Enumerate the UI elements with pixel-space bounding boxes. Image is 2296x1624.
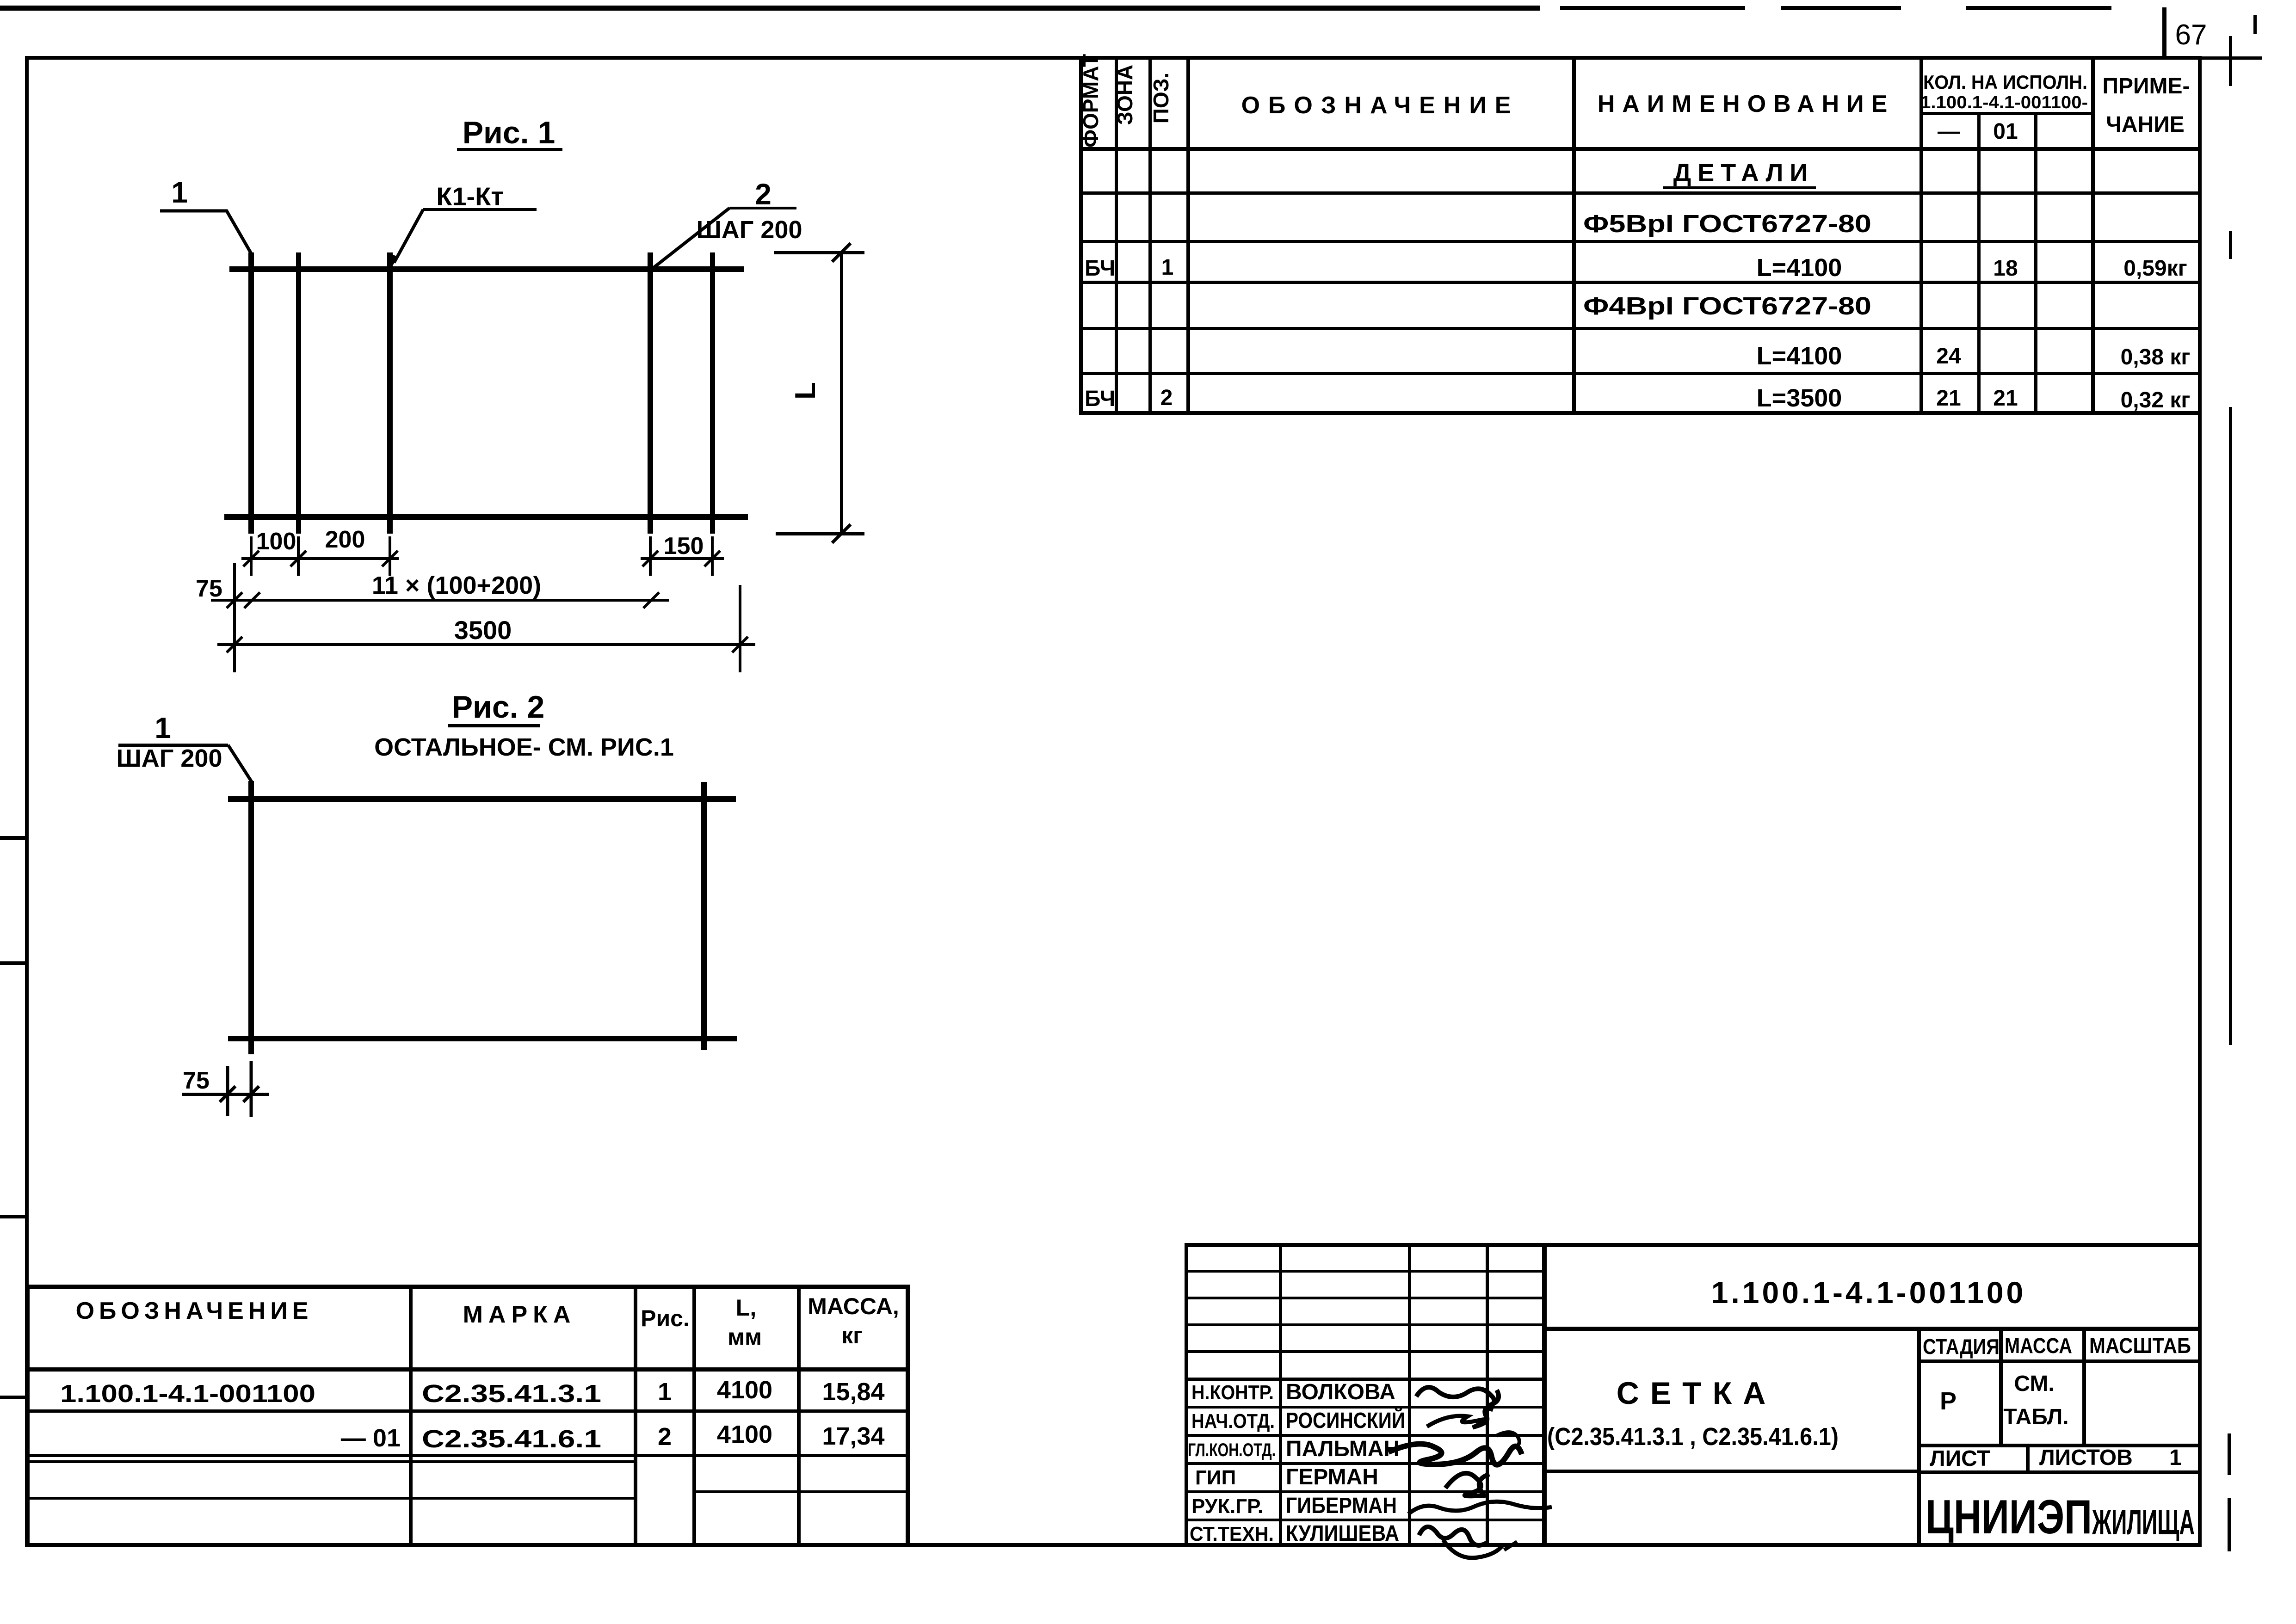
svg-text:0,59кг: 0,59кг [2123,256,2187,281]
svg-text:Ф4ВрI ГОСТ6727-80: Ф4ВрI ГОСТ6727-80 [1583,292,1871,320]
svg-text:21: 21 [1993,386,2018,411]
svg-text:РУК.ГР.: РУК.ГР. [1191,1495,1263,1518]
fig2 mesh right bar [701,782,707,1050]
svg-text:КУЛИШЕВА: КУЛИШЕВА [1286,1521,1399,1546]
scan top edge line [0,6,1540,11]
svg-text:1.100.1-4.1-001100: 1.100.1-4.1-001100 [1711,1275,2026,1310]
svg-text:1: 1 [1161,255,1174,280]
svg-text:1: 1 [2169,1446,2182,1470]
svg-text:С2.35.41.3.1: С2.35.41.3.1 [422,1380,601,1408]
svg-text:ЗОНА: ЗОНА [1113,65,1137,125]
svg-text:01: 01 [1993,119,2018,144]
svg-text:ШАГ 200: ШАГ 200 [117,744,222,772]
signature squiggle Пальман [1389,1444,1522,1465]
svg-text:МАРКА: МАРКА [463,1301,576,1328]
svg-text:ОБОЗНАЧЕНИЕ: ОБОЗНАЧЕНИЕ [76,1298,313,1324]
svg-text:НАЧ.ОТД.: НАЧ.ОТД. [1191,1410,1275,1433]
svg-text:2: 2 [755,178,772,211]
svg-text:17,34: 17,34 [822,1422,884,1450]
svg-text:4100: 4100 [717,1376,772,1404]
left margin tick 1 [0,836,25,840]
svg-text:Н.КОНТР.: Н.КОНТР. [1191,1381,1274,1404]
signature squiggle Волкова [1416,1387,1499,1406]
svg-text:1: 1 [658,1378,672,1406]
svg-text:КОЛ. НА ИСПОЛН.: КОЛ. НА ИСПОЛН. [1923,71,2087,93]
svg-text:1.100.1-4.1-001100: 1.100.1-4.1-001100 [60,1380,315,1408]
svg-text:(С2.35.41.3.1 , С2.35.41.6.1): (С2.35.41.3.1 , С2.35.41.6.1) [1547,1423,1839,1451]
fig1 dim row B line + ticks [211,599,669,602]
signature squiggle Гиберман [1408,1501,1552,1514]
svg-text:1: 1 [171,176,188,209]
svg-text:СМ.: СМ. [2014,1372,2054,1396]
svg-text:Рис. 1: Рис. 1 [463,115,555,150]
svg-text:К1-Кт: К1-Кт [436,182,504,211]
bl table horizontals [26,1285,910,1500]
svg-text:ЧАНИЕ: ЧАНИЕ [2106,112,2185,137]
svg-text:ВОЛКОВА: ВОЛКОВА [1286,1380,1395,1404]
svg-text:мм: мм [728,1324,762,1350]
svg-text:ЛИСТ: ЛИСТ [1930,1446,1990,1471]
fig1 dim row B extension [233,563,236,672]
svg-text:БЧ: БЧ [1085,387,1115,411]
svg-text:ТАБЛ.: ТАБЛ. [2003,1405,2068,1429]
svg-text:Рис.: Рис. [641,1305,690,1331]
signature squiggle Кулишева [1419,1527,1487,1545]
svg-text:15,84: 15,84 [822,1378,884,1406]
fig2 dim 75 line + ticks [182,1093,269,1096]
fig1 mesh vertical bar 3 [387,252,393,534]
signature squiggle Росинский [1427,1409,1493,1427]
svg-text:ДЕТАЛИ: ДЕТАЛИ [1673,159,1814,187]
spec table horizontals [1079,112,2202,415]
svg-text:МАССА: МАССА [2005,1334,2072,1358]
fig1 mesh bottom bar [224,514,748,520]
svg-text:2: 2 [1160,386,1173,410]
svg-text:2: 2 [658,1423,672,1451]
svg-text:3500: 3500 [454,615,512,645]
svg-text:МАССА,: МАССА, [808,1293,899,1319]
svg-text:24: 24 [1936,344,1961,369]
svg-text:Рис. 2: Рис. 2 [452,689,545,725]
tb horizontals [1185,1243,2202,1521]
svg-text:Ф5ВрI ГОСТ6727-80: Ф5ВрI ГОСТ6727-80 [1583,210,1871,238]
svg-text:НАИМЕНОВАНИЕ: НАИМЕНОВАНИЕ [1598,91,1895,117]
svg-text:ПАЛЬМАН: ПАЛЬМАН [1286,1437,1400,1461]
fig1 mesh top bar [229,266,744,272]
left margin tick 4 [0,1396,25,1399]
svg-text:ОБОЗНАЧЕНИЕ: ОБОЗНАЧЕНИЕ [1241,92,1519,119]
signature squiggle Герман [1445,1473,1489,1496]
svg-text:ЦНИИЭП: ЦНИИЭП [1926,1490,2092,1544]
fig1 dim row A line + ticks [241,557,399,560]
svg-text:1: 1 [154,711,171,744]
fig2 mesh top bar [228,796,736,802]
fig2 mesh bottom bar [228,1036,737,1041]
svg-text:ОСТАЛЬНОЕ- СМ. РИС.1: ОСТАЛЬНОЕ- СМ. РИС.1 [374,733,674,761]
fig1 right dimension L [774,251,864,254]
svg-text:L: L [790,382,821,400]
svg-text:75: 75 [196,575,222,602]
svg-text:1.100.1-4.1-001100-: 1.100.1-4.1-001100- [1920,93,2088,112]
svg-text:— 01: — 01 [341,1424,401,1452]
fig1 dim row A: extension lines [251,536,712,576]
tb outline verticals [1185,1243,2086,1545]
fig1 mesh vertical bar 5 [710,252,715,534]
svg-text:150: 150 [664,533,704,560]
svg-text:СТАДИЯ: СТАДИЯ [1923,1335,2000,1359]
fig1 dim row C extension [739,585,741,672]
fig1 dim row C line + ticks [217,643,755,646]
svg-text:ЖИЛИЩА: ЖИЛИЩА [2092,1503,2195,1542]
svg-text:11 × (100+200): 11 × (100+200) [372,572,541,599]
svg-text:75: 75 [183,1067,210,1094]
svg-text:0,32 кг: 0,32 кг [2121,388,2191,412]
svg-text:67: 67 [2175,19,2207,51]
svg-text:ПОЗ.: ПОЗ. [1149,73,1173,123]
svg-text:21: 21 [1936,386,1961,411]
svg-text:18: 18 [1993,256,2018,281]
fig2 mesh left bar [248,781,254,1054]
svg-text:L=3500: L=3500 [1757,384,1842,412]
svg-text:ЛИСТОВ: ЛИСТОВ [2039,1446,2133,1470]
scan right edge dashes [2229,36,2232,86]
fig2 dim 75 extensions [226,1066,229,1116]
svg-text:L,: L, [736,1295,756,1321]
fig1 mesh vertical bar 1 [248,252,254,534]
svg-text:кг: кг [841,1323,863,1348]
fig1 mesh vertical bar 4 [648,252,653,534]
svg-text:100: 100 [256,528,296,555]
svg-text:СТ.ТЕХН.: СТ.ТЕХН. [1190,1523,1274,1545]
bl table verticals [26,1285,910,1544]
left margin tick 2 [0,961,25,965]
svg-text:0,38 кг: 0,38 кг [2121,345,2191,369]
svg-text:ГЕРМАН: ГЕРМАН [1286,1465,1378,1489]
svg-text:ГИБЕРМАН: ГИБЕРМАН [1286,1494,1397,1518]
svg-text:Р: Р [1940,1387,1957,1415]
svg-text:С2.35.41.6.1: С2.35.41.6.1 [422,1425,601,1453]
svg-text:L=4100: L=4100 [1757,254,1842,282]
frame border [25,56,29,1545]
svg-text:L=4100: L=4100 [1757,342,1842,370]
svg-text:СЕТКА: СЕТКА [1617,1376,1777,1411]
page number tick [2162,7,2166,59]
svg-text:ФОРМАТ: ФОРМАТ [1079,54,1103,148]
svg-text:ГИП: ГИП [1195,1466,1236,1489]
svg-text:200: 200 [325,526,365,553]
svg-text:ПРИМЕ-: ПРИМЕ- [2103,74,2190,98]
svg-text:4100: 4100 [717,1421,772,1448]
svg-text:—: — [1938,119,1960,144]
svg-text:БЧ: БЧ [1085,256,1115,281]
small top dash [2253,15,2257,34]
left margin tick 3 [0,1215,25,1218]
fig1 mesh vertical bar 2 [296,252,301,534]
svg-text:МАСШТАБ: МАСШТАБ [2089,1334,2191,1358]
spec table verticals [1079,56,2095,414]
svg-text:РОСИНСКИЙ: РОСИНСКИЙ [1286,1408,1405,1433]
svg-text:ГЛ.КОН.ОТД.: ГЛ.КОН.ОТД. [1188,1440,1276,1460]
